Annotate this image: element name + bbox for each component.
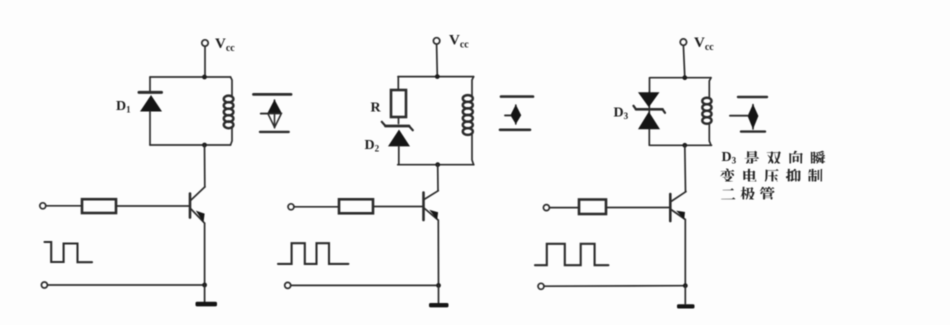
svg-text:Vcc: Vcc: [449, 33, 469, 51]
coil L3: [702, 78, 711, 146]
transistor Q3: [670, 192, 686, 221]
waveform input 2: [278, 243, 348, 264]
resistor Rb2: [339, 199, 373, 213]
wire collector 2: [437, 165, 439, 191]
node emitter-ground 2: [436, 283, 441, 288]
Vcc terminal 1: [202, 40, 208, 46]
note text char 管: [760, 187, 775, 200]
resistor Rb3: [579, 200, 606, 215]
wire emitter 3: [684, 220, 686, 286]
svg-text:D2: D2: [365, 138, 380, 154]
note text char 向: [789, 151, 802, 164]
note text char 制: [808, 169, 822, 182]
node junction bottom 3: [682, 143, 687, 148]
bottom terminal 2: [285, 282, 291, 288]
waveform input 3: [535, 244, 608, 265]
wire R to D2: [398, 117, 400, 124]
svg-text:R: R: [371, 101, 382, 116]
wire Vcc3 to top rail: [683, 45, 684, 77]
waveform input 1: [45, 242, 93, 262]
resistor R: [391, 90, 406, 117]
note text char 极: [740, 187, 754, 200]
node junction top 2: [435, 74, 440, 79]
resistor Rb1: [82, 199, 116, 213]
wire bottom rail 1: [48, 284, 205, 286]
TVS diode D3: [634, 92, 666, 129]
svg-text:Vcc: Vcc: [694, 35, 714, 53]
wire D2 branch lower: [398, 146, 400, 164]
node junction bottom 1: [202, 143, 207, 148]
input terminal 1: [40, 203, 46, 209]
note text char 变: [720, 169, 734, 182]
note text char 双: [767, 151, 781, 163]
input terminal 3: [543, 205, 549, 211]
wire base 3: [606, 207, 670, 209]
top rail 1: [150, 76, 231, 78]
bottom rail 1: [150, 144, 231, 146]
wire bottom rail 2: [291, 284, 439, 286]
input terminal 2: [288, 204, 294, 210]
node junction top 3: [682, 75, 687, 80]
wire base 1: [116, 205, 190, 207]
node junction bottom 2: [435, 162, 440, 167]
wire input 2: [294, 206, 339, 208]
note text char 瞬: [811, 151, 825, 164]
svg-text:D3: D3: [722, 150, 737, 166]
spike symbol 3: [730, 97, 767, 132]
coil L2: [463, 77, 474, 165]
note text char 电: [743, 169, 756, 182]
wire input 3: [550, 207, 580, 209]
ground 3: [677, 304, 695, 308]
wire D3 branch lower: [648, 129, 650, 145]
note text char 是: [744, 151, 759, 164]
note text char 压: [765, 169, 779, 181]
bottom rail 3: [650, 144, 712, 146]
wire D3 branch upper: [649, 78, 651, 92]
wire emitter 1: [204, 223, 206, 285]
ground 1: [196, 302, 218, 307]
bottom terminal 1: [41, 282, 47, 288]
svg-text:Vcc: Vcc: [215, 36, 235, 54]
spike symbol 1: [254, 94, 292, 131]
wire to ground 1: [204, 285, 206, 302]
node junction top 1: [202, 75, 207, 80]
top rail 3: [650, 77, 711, 79]
zener diode D2: [382, 122, 413, 147]
wire Vcc1 to top rail: [204, 46, 206, 77]
bottom terminal 3: [538, 283, 544, 289]
wire D1 branch lower: [149, 112, 151, 146]
spike symbol 2: [500, 97, 533, 130]
wire Vcc2 to top rail: [436, 44, 439, 76]
coil L1: [224, 77, 234, 145]
wire R branch upper: [397, 77, 399, 90]
wire emitter 2: [437, 220, 439, 285]
wire D1 branch upper: [149, 77, 151, 91]
top rail 2: [398, 76, 474, 78]
wire base 2: [373, 206, 424, 208]
node emitter-ground 1: [202, 283, 207, 288]
svg-text:D3: D3: [614, 106, 629, 122]
wire to ground 3: [684, 286, 686, 304]
note text char 二: [721, 188, 735, 199]
wire input 1: [46, 205, 82, 207]
note text char 抑: [786, 169, 801, 182]
ground 2: [429, 303, 449, 307]
wire collector 3: [684, 145, 687, 191]
bottom rail 2: [398, 164, 474, 166]
transistor Q1: [190, 187, 205, 223]
diode D1: [139, 92, 162, 111]
Vcc terminal 3: [680, 39, 686, 45]
svg-text:D1: D1: [116, 99, 131, 115]
transistor Q2: [424, 191, 439, 221]
node emitter-ground 3: [683, 283, 688, 288]
Vcc terminal 2: [433, 38, 439, 44]
wire collector 1: [204, 145, 206, 187]
wire to ground 2: [438, 285, 440, 302]
wire bottom rail 3: [544, 285, 685, 288]
